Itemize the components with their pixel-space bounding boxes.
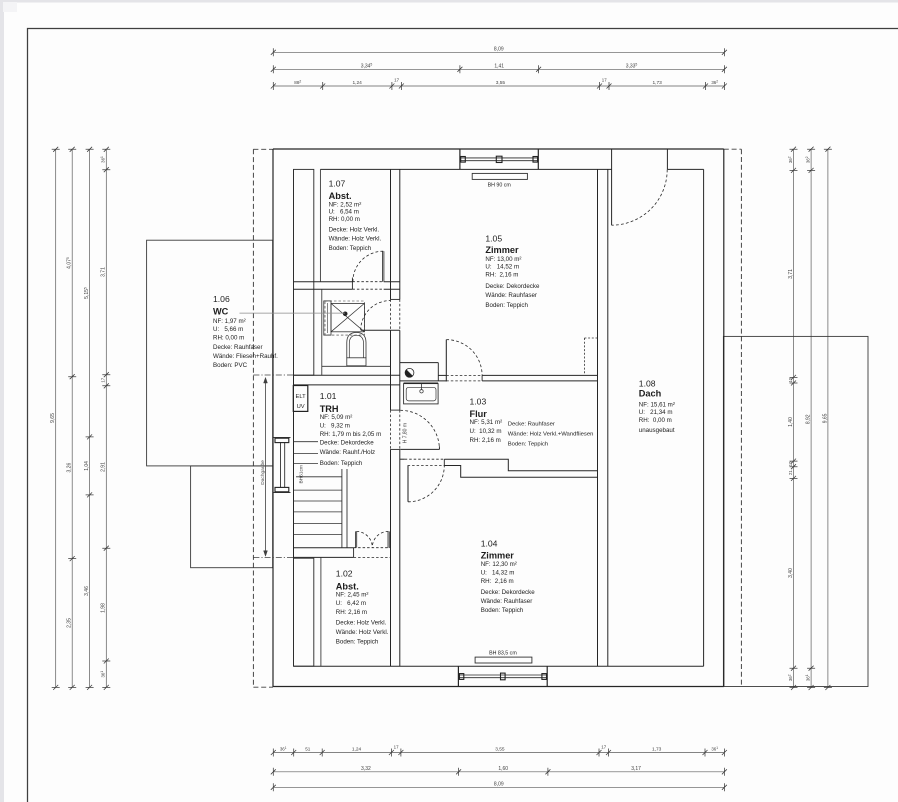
- svg-text:3,71: 3,71: [101, 267, 107, 277]
- svg-text:17: 17: [101, 377, 106, 382]
- svg-text:3,32: 3,32: [361, 766, 371, 772]
- svg-text:1,60: 1,60: [498, 766, 508, 772]
- svg-text:Decke: Holz Verkl.: Decke: Holz Verkl.: [329, 227, 380, 234]
- svg-text:RH: 1,79 m bis 2,05 m: RH: 1,79 m bis 2,05 m: [320, 431, 382, 438]
- svg-text:Wände: Rauhfaser: Wände: Rauhfaser: [481, 598, 533, 605]
- svg-text:10: 10: [788, 461, 793, 466]
- svg-text:Wände: Holz Verkl.+Wandfliesen: Wände: Holz Verkl.+Wandfliesen: [508, 431, 594, 437]
- svg-text:1,40: 1,40: [788, 417, 794, 427]
- svg-text:TRH: TRH: [320, 404, 339, 414]
- svg-text:U: 14,32 m: U: 14,32 m: [481, 570, 515, 577]
- svg-text:ELT: ELT: [295, 394, 306, 400]
- svg-text:Decke: Rauhfaser: Decke: Rauhfaser: [508, 421, 555, 427]
- svg-text:RH: 0,00 m: RH: 0,00 m: [329, 216, 360, 223]
- svg-text:Zimmer: Zimmer: [485, 245, 519, 255]
- svg-text:9,65: 9,65: [50, 413, 56, 423]
- svg-text:51: 51: [305, 747, 311, 752]
- svg-text:3,17: 3,17: [631, 766, 641, 772]
- svg-text:Boden: Teppich: Boden: Teppich: [508, 441, 549, 447]
- svg-text:8,92: 8,92: [806, 414, 812, 424]
- svg-text:Dach: Dach: [639, 389, 662, 399]
- svg-text:RH: 2,16 m: RH: 2,16 m: [336, 609, 367, 616]
- svg-text:Boden: Teppich: Boden: Teppich: [320, 460, 363, 467]
- svg-text:NF: 5,31 m²: NF: 5,31 m²: [470, 419, 503, 426]
- svg-text:1.01: 1.01: [320, 391, 337, 401]
- svg-text:17: 17: [602, 78, 607, 83]
- svg-text:Flur: Flur: [470, 409, 488, 419]
- svg-text:Wände: Holz Verkl.: Wände: Holz Verkl.: [336, 629, 389, 636]
- svg-text:BH 83,5 cm: BH 83,5 cm: [489, 650, 517, 656]
- svg-text:21: 21: [788, 470, 793, 475]
- svg-text:10: 10: [788, 377, 793, 382]
- svg-text:1,41: 1,41: [494, 63, 504, 69]
- svg-text:3,26: 3,26: [67, 463, 73, 473]
- svg-text:3,55: 3,55: [495, 747, 505, 753]
- svg-text:3,55: 3,55: [496, 80, 506, 86]
- svg-text:Decke: Dekordecke: Decke: Dekordecke: [481, 589, 536, 596]
- svg-text:8,09: 8,09: [494, 782, 504, 788]
- svg-text:1.04: 1.04: [481, 538, 498, 548]
- svg-text:Decke: Dekordecke: Decke: Dekordecke: [320, 439, 375, 446]
- svg-text:Zimmer: Zimmer: [481, 551, 515, 561]
- svg-text:U: 14,52 m: U: 14,52 m: [485, 264, 519, 271]
- svg-text:Wände: Fliesen+Rauhf.: Wände: Fliesen+Rauhf.: [213, 353, 278, 360]
- svg-text:RH: 2,16 m: RH: 2,16 m: [481, 578, 514, 585]
- svg-text:U: 6,42 m: U: 6,42 m: [336, 600, 366, 607]
- svg-text:NF: 1,97 m²: NF: 1,97 m²: [213, 318, 246, 325]
- svg-text:U: 6,54 m: U: 6,54 m: [329, 209, 359, 216]
- svg-text:17: 17: [394, 78, 399, 83]
- svg-text:RH: 2,16 m: RH: 2,16 m: [470, 437, 501, 444]
- svg-text:BH 90 cm: BH 90 cm: [488, 182, 512, 188]
- svg-text:1,24: 1,24: [352, 747, 362, 753]
- svg-text:U: 10,32 m: U: 10,32 m: [470, 428, 502, 435]
- svg-text:Abst.: Abst.: [329, 191, 352, 201]
- svg-text:U: 21,34 m: U: 21,34 m: [639, 409, 673, 416]
- svg-text:1,98: 1,98: [101, 603, 107, 613]
- svg-text:3,40: 3,40: [788, 568, 794, 578]
- svg-text:1,73: 1,73: [652, 747, 662, 753]
- svg-text:NF: 12,30 m²: NF: 12,30 m²: [481, 561, 517, 568]
- svg-text:Decke: Dekordecke: Decke: Dekordecke: [485, 283, 540, 290]
- svg-text:NF: 13,00 m²: NF: 13,00 m²: [485, 256, 521, 263]
- svg-text:RH: 0,00 m: RH: 0,00 m: [213, 334, 244, 341]
- svg-text:Wände: Holz Verkl.: Wände: Holz Verkl.: [329, 236, 382, 243]
- svg-text:NF: 15,61 m²: NF: 15,61 m²: [639, 401, 675, 408]
- svg-text:17: 17: [394, 745, 399, 750]
- svg-text:8,09: 8,09: [494, 46, 504, 52]
- svg-text:Decke: Holz Verkl.: Decke: Holz Verkl.: [336, 619, 387, 626]
- svg-text:BH61cm: BH61cm: [298, 465, 304, 483]
- svg-text:Boden: PVC: Boden: PVC: [213, 362, 248, 369]
- svg-text:1,24: 1,24: [353, 80, 363, 86]
- svg-text:9,65: 9,65: [822, 413, 828, 423]
- svg-text:1.02: 1.02: [336, 569, 353, 579]
- svg-text:Boden: Teppich: Boden: Teppich: [485, 302, 528, 309]
- svg-text:1.07: 1.07: [329, 178, 346, 188]
- svg-text:Wände: Rauhfaser: Wände: Rauhfaser: [485, 292, 537, 299]
- svg-text:Boden: Teppich: Boden: Teppich: [481, 607, 524, 614]
- svg-text:NF: 2,45 m²: NF: 2,45 m²: [336, 592, 369, 599]
- svg-text:17: 17: [601, 745, 606, 750]
- svg-text:unausgebaut: unausgebaut: [639, 427, 675, 434]
- svg-text:1.08: 1.08: [639, 379, 656, 389]
- svg-text:RH: 2,16 m: RH: 2,16 m: [485, 271, 518, 278]
- svg-text:1.06: 1.06: [213, 294, 230, 304]
- svg-text:NF: 5,09 m²: NF: 5,09 m²: [320, 414, 353, 421]
- svg-text:Boden: Teppich: Boden: Teppich: [329, 245, 372, 252]
- svg-text:1,73: 1,73: [653, 80, 663, 86]
- svg-text:U: 9,32 m: U: 9,32 m: [320, 422, 350, 429]
- svg-text:Boden: Teppich: Boden: Teppich: [336, 638, 379, 645]
- svg-text:1,04: 1,04: [84, 461, 90, 471]
- svg-text:UV: UV: [297, 404, 305, 410]
- svg-text:NF: 2,52 m²: NF: 2,52 m²: [329, 201, 362, 208]
- svg-text:3,46: 3,46: [84, 586, 90, 596]
- svg-text:2,35: 2,35: [67, 618, 73, 628]
- svg-text:Abst.: Abst.: [336, 581, 359, 591]
- svg-text:Dachgaube: Dachgaube: [260, 460, 266, 485]
- svg-text:WC: WC: [213, 307, 229, 317]
- svg-text:1.03: 1.03: [470, 396, 487, 406]
- svg-text:3,71: 3,71: [788, 269, 794, 279]
- svg-text:Wände: Rauhf./Holz: Wände: Rauhf./Holz: [320, 449, 375, 456]
- svg-text:2,91: 2,91: [101, 462, 107, 472]
- svg-text:1.05: 1.05: [485, 233, 502, 243]
- svg-text:H 7,80 m: H 7,80 m: [402, 423, 408, 443]
- svg-text:U: 5,66 m: U: 5,66 m: [213, 326, 243, 333]
- svg-text:RH: 0,00 m: RH: 0,00 m: [639, 417, 672, 424]
- svg-text:Decke: Rauhfaser: Decke: Rauhfaser: [213, 344, 263, 351]
